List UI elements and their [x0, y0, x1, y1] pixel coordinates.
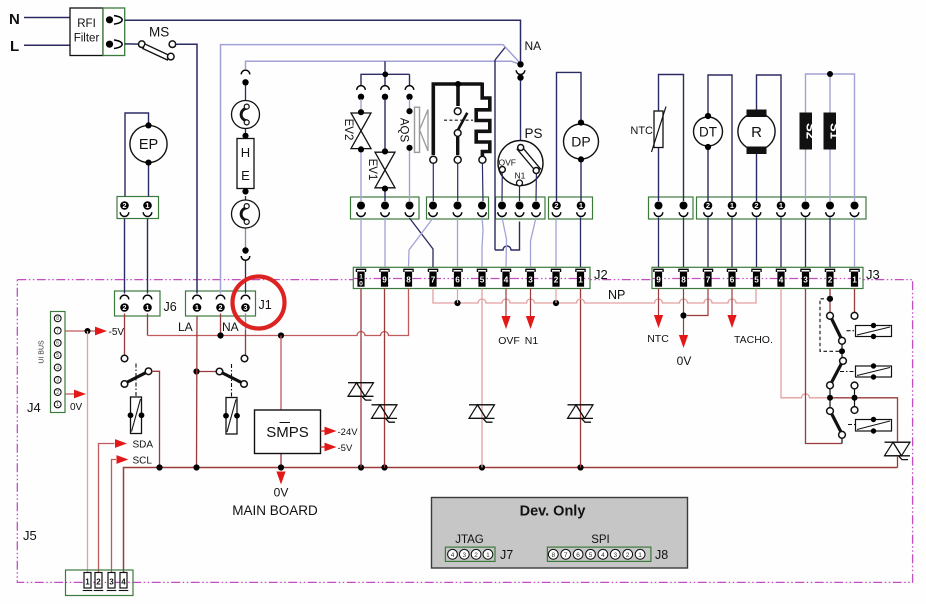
wire NA to PS — [520, 81, 522, 141]
relay2 link — [231, 364, 233, 397]
wire J3 pin2 down — [829, 289, 831, 313]
EP plug pins — [120, 201, 129, 210]
DT/R/S plug pins — [704, 201, 713, 210]
svg-text:2: 2 — [626, 552, 630, 559]
svg-text:J6: J6 — [164, 300, 177, 314]
wire J4 -5V — [65, 330, 96, 332]
node chain mid contacts — [827, 395, 833, 401]
wire to J3 pin8 — [683, 218, 685, 268]
svg-text:J5: J5 — [23, 528, 37, 543]
wire SCL — [112, 460, 117, 573]
svg-text:NP: NP — [608, 288, 625, 302]
wire EP plug to J6 pin1 — [147, 219, 149, 294]
svg-text:8: 8 — [56, 316, 59, 322]
svg-text:8: 8 — [681, 276, 686, 285]
wire R loop — [757, 75, 782, 201]
door lock body — [433, 84, 482, 155]
connector J1 box — [186, 291, 256, 316]
svg-text:RFI: RFI — [77, 18, 96, 30]
board boundary through J2 — [354, 278, 589, 280]
node HE top — [242, 133, 248, 139]
highlight circle on J1 pin3 — [233, 277, 285, 329]
node 0V bus junctions — [156, 464, 162, 470]
svg-text:J7: J7 — [500, 548, 513, 562]
wire NA bus 2 (HE/EV) — [246, 61, 519, 69]
svg-text:1: 1 — [145, 303, 149, 312]
wire NTC loop — [659, 75, 684, 202]
wire to J3 pin6 — [731, 218, 733, 268]
wire to J3 pin4 — [780, 218, 782, 268]
motor R — [738, 113, 775, 150]
svg-text:1: 1 — [578, 276, 583, 285]
switch S1 — [824, 113, 837, 150]
wire relay1 out — [152, 371, 160, 467]
connector J2 pins 10..1 — [356, 269, 365, 272]
connector J5 pins — [84, 573, 91, 589]
svg-text:NTC: NTC — [647, 333, 669, 345]
svg-text:1: 1 — [486, 552, 490, 559]
wire to J3 pin2 — [829, 218, 831, 268]
svg-text:3: 3 — [613, 552, 617, 559]
wire EP loop — [125, 113, 149, 197]
svg-text:N1: N1 — [515, 171, 526, 181]
door lock plug pins — [429, 202, 437, 210]
svg-text:NTC: NTC — [630, 125, 653, 137]
svg-text:1: 1 — [638, 552, 642, 559]
door lock contacts — [430, 156, 437, 163]
svg-text:EV2: EV2 — [342, 119, 354, 141]
wire DP1 to J2 pin1 — [580, 218, 582, 268]
svg-text:-5V: -5V — [338, 443, 353, 454]
svg-text:S2: S2 — [803, 123, 818, 139]
EV2 top pin — [357, 86, 366, 90]
svg-text:SMPS: SMPS — [266, 424, 309, 441]
svg-text:7: 7 — [706, 276, 711, 285]
relay coil KB — [856, 366, 892, 377]
svg-text:OVF: OVF — [498, 335, 520, 347]
wire EV2 to J2 pin10 — [360, 218, 362, 268]
wire OVF to J2 pin4 — [502, 218, 507, 268]
EV/AQS plug pins — [357, 202, 365, 210]
wire SDA — [99, 444, 115, 573]
wire AQS to J2 pin7 (crossing) — [410, 218, 434, 267]
svg-text:1: 1 — [359, 273, 363, 280]
triac T1 — [348, 382, 374, 384]
svg-text:MS: MS — [149, 25, 169, 40]
relay link1 — [847, 330, 856, 332]
svg-text:7: 7 — [56, 328, 59, 334]
sensor DT — [694, 117, 723, 146]
connector J1 pins — [193, 295, 202, 299]
wire L to RFI filter — [24, 44, 70, 46]
arrow -5V (SMPS) — [321, 446, 325, 448]
relay1 arm — [121, 381, 128, 388]
wire DP2 to J2 pin2 — [555, 218, 557, 268]
connector strip NTC plug box — [649, 197, 694, 219]
wire J2 pin1 to 0V — [580, 289, 582, 468]
wire S1 col — [829, 74, 831, 113]
svg-text:1: 1 — [195, 303, 199, 312]
svg-text:NA: NA — [222, 320, 239, 334]
wire J1 pin3 to relay2 — [245, 314, 247, 331]
valve EV1 — [375, 152, 395, 188]
svg-text:0: 0 — [359, 281, 363, 288]
svg-text:5: 5 — [754, 276, 759, 285]
svg-text:J3: J3 — [866, 267, 880, 282]
relay sw3 — [827, 408, 834, 415]
svg-text:LA: LA — [178, 320, 193, 334]
RFI filter box — [70, 8, 103, 56]
wire S2 bottom — [805, 150, 807, 202]
wire J1pin1 line down — [196, 316, 199, 468]
arrow 0V (J4) — [74, 390, 86, 399]
wire N1 signal — [530, 289, 532, 317]
HE bottom pin — [242, 247, 248, 253]
svg-text:2: 2 — [96, 578, 101, 587]
pump EP — [130, 125, 167, 162]
svg-text:SCL: SCL — [133, 456, 153, 467]
wire J1 pin2 to bus — [220, 314, 222, 336]
wire J6 pin2 to relay1 — [124, 314, 126, 356]
triac T2 — [372, 404, 398, 406]
Dev Only box — [432, 498, 688, 569]
wire doorlock2 to J2 pin6 — [457, 218, 459, 268]
wire EV top bus — [361, 61, 410, 85]
wire DP to pin1 — [580, 159, 582, 201]
svg-text:-24V: -24V — [338, 427, 359, 438]
svg-text:2: 2 — [554, 276, 559, 285]
svg-text:TACHO.: TACHO. — [734, 334, 773, 346]
connector strip EP plug box — [117, 197, 159, 219]
wire J3 pin1 down — [854, 289, 856, 313]
door lock switch — [454, 108, 461, 115]
svg-text:UI BUS: UI BUS — [39, 340, 46, 364]
svg-text:R: R — [751, 124, 762, 141]
svg-text:JTAG: JTAG — [455, 534, 484, 546]
svg-text:2: 2 — [218, 303, 222, 312]
wire EP plug to J6 pin2 — [124, 219, 126, 294]
wire MS line to relay2 — [197, 371, 217, 373]
wire PS lever to J2 pin3 — [531, 218, 537, 268]
svg-text:DT: DT — [699, 125, 717, 140]
wire relay chain mid — [830, 398, 898, 435]
NTC plug pins — [655, 202, 663, 210]
relay sw1 — [827, 312, 834, 319]
wire OVF signal — [505, 289, 507, 317]
relay coil KC — [856, 420, 892, 432]
svg-text:4: 4 — [56, 365, 59, 371]
HE top pin — [241, 70, 250, 74]
SMPS box — [255, 410, 321, 454]
relay link2 — [840, 371, 856, 373]
connector J8 — [547, 547, 651, 561]
relay1 link — [135, 364, 137, 397]
svg-text:AQS: AQS — [398, 118, 410, 143]
node bus SMPS — [278, 332, 284, 338]
svg-text:1: 1 — [56, 402, 59, 408]
connector J2 box — [353, 267, 590, 288]
connector J3 pins 9..1 — [654, 269, 663, 272]
wire NTC signal — [658, 289, 660, 316]
wire J2 pin5 to 0V — [481, 289, 483, 468]
wire J3 pin7 branch — [687, 289, 708, 316]
svg-text:6: 6 — [576, 552, 580, 559]
svg-text:3: 3 — [803, 276, 808, 285]
svg-text:3: 3 — [243, 303, 247, 312]
svg-text:3: 3 — [56, 378, 59, 384]
svg-text:1: 1 — [85, 578, 90, 587]
wire 0V signal — [683, 289, 685, 336]
svg-text:3: 3 — [528, 276, 533, 285]
svg-text:2: 2 — [706, 201, 710, 210]
triac T3 — [469, 404, 495, 406]
svg-text:2: 2 — [754, 201, 758, 210]
node S bus — [827, 71, 833, 77]
relay link3 — [848, 424, 856, 426]
wire doorlock3 to J2 pin5 — [482, 218, 483, 268]
relay sw2 — [840, 358, 847, 365]
svg-text:J1: J1 — [259, 298, 272, 312]
svg-text:4: 4 — [601, 552, 605, 559]
node MS line tap — [193, 368, 199, 374]
wire to J3 pin5 — [756, 218, 758, 268]
wire EV2 col — [360, 99, 362, 112]
connector strip DP plug box — [549, 197, 593, 219]
connector strip PS plug box — [496, 197, 546, 219]
arrow -5V — [95, 327, 107, 336]
node NP pin6 — [454, 300, 460, 306]
svg-text:2: 2 — [122, 303, 126, 312]
svg-text:0V: 0V — [274, 486, 289, 500]
thermostat upper — [232, 101, 260, 129]
svg-text:6: 6 — [56, 341, 59, 347]
wire to J3 pin9 — [658, 218, 660, 268]
svg-text:0V: 0V — [677, 354, 692, 368]
wire bus to SMPS — [280, 336, 282, 411]
valve EV2 — [351, 113, 371, 149]
relay2 coil K2 — [226, 398, 237, 435]
wire J3 pin4 down — [781, 289, 830, 398]
connector strip door-lock plug box — [427, 197, 489, 219]
svg-text:1: 1 — [579, 201, 583, 210]
wire LA bus — [148, 289, 409, 336]
relay coil KA — [856, 326, 892, 337]
wire NA bus top — [221, 45, 521, 294]
wire DT loop — [708, 75, 732, 201]
svg-text:2: 2 — [474, 552, 478, 559]
RFI filter pin N — [106, 16, 113, 23]
connector J3 box — [652, 267, 863, 288]
wire DP loop — [557, 72, 582, 201]
arrow SCL — [117, 455, 129, 464]
EV1 top pin — [381, 86, 390, 90]
triac T4 — [568, 404, 594, 406]
relay1 contact — [121, 355, 128, 362]
wire to J3 pin7 — [707, 218, 709, 268]
wire L output to MS — [125, 43, 140, 45]
svg-text:1: 1 — [145, 201, 149, 210]
wire NTC bottom — [658, 148, 660, 202]
wire J6 pin1 to LA bus — [147, 314, 149, 336]
wire sw3 out — [841, 438, 843, 444]
svg-text:4: 4 — [121, 578, 126, 587]
svg-text:J2: J2 — [594, 267, 608, 282]
svg-text:NA: NA — [525, 39, 542, 53]
door lock zigzag — [476, 83, 490, 157]
svg-text:SPI: SPI — [591, 534, 610, 546]
connector J7 — [445, 547, 495, 561]
connector strip EV/AQS plug box — [351, 197, 420, 219]
node HE bottom — [242, 188, 248, 194]
svg-text:-5V: -5V — [109, 327, 125, 338]
switch S2 — [800, 113, 813, 150]
pressure switch PS — [498, 141, 543, 186]
wire EP to pin1 — [148, 161, 150, 197]
svg-text:Dev. Only: Dev. Only — [520, 504, 586, 520]
svg-text:5: 5 — [56, 353, 59, 359]
svg-text:1: 1 — [779, 201, 783, 210]
svg-text:5: 5 — [480, 276, 485, 285]
svg-text:L: L — [10, 38, 19, 55]
wire DT bottom — [707, 148, 709, 202]
connector J4 pins — [54, 315, 61, 322]
svg-text:Filter: Filter — [74, 33, 100, 45]
relay2 arm — [216, 368, 223, 375]
wire doorlock1 to J2 pin8 (crossing) — [409, 218, 434, 267]
wire N line to NA — [125, 20, 521, 61]
main board boundary — [17, 280, 912, 583]
wire N to RFI filter — [24, 17, 70, 19]
node relay top — [827, 296, 833, 302]
buzzer AQS — [406, 108, 412, 114]
svg-text:J4: J4 — [27, 400, 41, 415]
wire J2 pin10 to 0V — [360, 289, 362, 468]
svg-text:4: 4 — [504, 276, 509, 285]
wire J2 pin9 to 0V — [384, 289, 386, 468]
svg-text:S1: S1 — [827, 123, 842, 139]
DP plug pins — [552, 201, 561, 210]
AQS top pin — [405, 86, 414, 90]
wire door lock pins — [432, 164, 434, 202]
wire MS to J1 pin1 — [176, 44, 197, 293]
node NP pin2 — [553, 300, 559, 306]
heater HE box — [237, 139, 254, 189]
svg-text:EV1: EV1 — [366, 159, 378, 181]
svg-text:6: 6 — [455, 276, 460, 285]
svg-text:DP: DP — [571, 134, 590, 150]
svg-text:MAIN BOARD: MAIN BOARD — [232, 503, 318, 518]
svg-text:3: 3 — [462, 552, 466, 559]
svg-text:SDA: SDA — [133, 440, 154, 451]
pump DP — [564, 124, 599, 159]
svg-text:7: 7 — [431, 276, 436, 285]
svg-text:2: 2 — [554, 201, 558, 210]
svg-text:5: 5 — [589, 552, 593, 559]
arrow -24V — [321, 430, 325, 432]
relay chain dashed link — [820, 299, 839, 352]
svg-text:8: 8 — [406, 276, 411, 285]
svg-text:7: 7 — [564, 552, 568, 559]
svg-text:2: 2 — [56, 390, 59, 396]
connector J4 box — [51, 312, 66, 413]
wire EV1 to J2 pin9 — [384, 218, 386, 268]
svg-text:EP: EP — [139, 137, 158, 153]
wire NP — [433, 289, 756, 304]
wire SMPS to 0V bus — [280, 454, 282, 468]
wire EV1 col — [384, 99, 386, 151]
RFI filter pin L — [106, 41, 113, 48]
relay2 contact — [241, 355, 248, 362]
svg-text:OVF: OVF — [499, 158, 516, 168]
wire PS lever to plug — [535, 174, 537, 201]
connector J6 pins — [120, 295, 129, 299]
wire OVF to plug — [501, 173, 503, 201]
svg-text:H: H — [241, 145, 250, 160]
svg-text:E: E — [241, 168, 250, 183]
thermistor NTC — [654, 111, 663, 148]
arrow 0V main — [276, 472, 285, 485]
wire HE segments — [245, 85, 247, 101]
connector strip DT/R/S plug box — [697, 197, 867, 219]
wire AQS col — [409, 99, 411, 111]
svg-text:1: 1 — [730, 201, 734, 210]
svg-text:J8: J8 — [655, 548, 668, 562]
svg-text:4: 4 — [779, 276, 784, 285]
svg-text:N: N — [9, 11, 20, 28]
wire J3 pin3 down — [806, 289, 843, 444]
svg-text:6: 6 — [730, 276, 735, 285]
node EV bus — [382, 71, 388, 77]
svg-text:2: 2 — [828, 276, 833, 285]
arrow SDA — [115, 439, 127, 448]
svg-text:1: 1 — [852, 276, 857, 285]
wire 0V bus — [124, 468, 898, 573]
wire to J3 pin1 — [854, 218, 856, 268]
node NA — [517, 61, 523, 67]
PS plug pins — [498, 202, 506, 210]
svg-text:PS: PS — [525, 126, 543, 141]
wire -5V rail down to J5 pin1 — [87, 331, 89, 572]
board boundary through J3 — [653, 278, 862, 280]
connector J6 box — [115, 291, 161, 316]
wire R bottom — [756, 154, 758, 201]
wire 0V to J4 — [65, 393, 77, 395]
svg-text:8: 8 — [551, 552, 555, 559]
wire TACHO signal — [731, 289, 733, 316]
svg-text:4: 4 — [451, 552, 455, 559]
triac T5 — [885, 441, 911, 443]
thermostat lower — [232, 200, 260, 228]
wire N1 to plug — [519, 186, 521, 201]
node -5V junction — [85, 328, 91, 334]
connector J5 box — [66, 570, 134, 596]
wire PS bypass to N1 — [495, 222, 520, 251]
svg-text:0V: 0V — [70, 402, 83, 413]
svg-text:9: 9 — [382, 276, 387, 285]
relay1 coil K1 — [131, 397, 142, 434]
node door lock — [455, 81, 461, 87]
wire to J3 pin3 — [805, 218, 807, 268]
svg-text:2: 2 — [122, 201, 126, 210]
node sw1 out — [841, 344, 843, 358]
svg-text:N1: N1 — [525, 335, 539, 347]
svg-text:3: 3 — [109, 578, 114, 587]
node bus NA — [217, 332, 223, 338]
wire S top bus — [806, 74, 855, 201]
svg-text:9: 9 — [656, 276, 661, 285]
